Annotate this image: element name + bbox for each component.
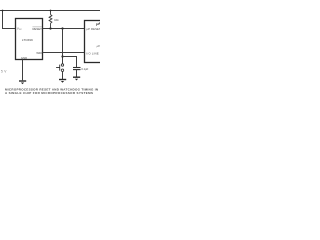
svg-text:VCC: VCC (17, 27, 22, 32)
svg-text:GND: GND (21, 56, 27, 60)
svg-text:LTC699: LTC699 (22, 38, 33, 42)
wire RESET net (43, 28, 85, 30)
svg-text:I/O LINE: I/O LINE (86, 52, 99, 56)
wire WDI net (43, 52, 85, 54)
node resistor/RESET junction (49, 27, 51, 29)
svg-text:μP: μP (95, 22, 100, 26)
svg-text:0.1µF: 0.1µF (81, 67, 88, 71)
5V supply rail (0, 10, 100, 12)
svg-text:μP RESET: μP RESET (86, 27, 100, 31)
node rail/VCC junction (2, 10, 4, 12)
wire pushbutton to ground (62, 71, 64, 79)
svg-text:10k: 10k (54, 18, 59, 22)
node pushbutton/RESET junction (61, 27, 63, 29)
wire VCC drop from rail to LTC699 VCC pin (3, 11, 16, 29)
svg-text:WDI: WDI (36, 51, 42, 55)
svg-text:μP: μP (96, 44, 100, 48)
wire capacitor to ground (76, 70, 78, 77)
node cap-stub junction (61, 55, 63, 57)
pushbutton S1 (56, 64, 64, 72)
wire pushbutton drop (62, 29, 64, 64)
resistor R1 10k (49, 11, 52, 29)
svg-text:A SINGLE CHIP FOR MICROPROCESS: A SINGLE CHIP FOR MICROPROCESSOR SYSTEMS (5, 91, 93, 95)
wire stub to capacitor (63, 57, 77, 68)
ground (pushbutton) (59, 80, 66, 83)
capacitor C1 0.1uF (73, 68, 81, 70)
node rail/resistor junction (50, 10, 52, 12)
svg-text:RESET: RESET (32, 27, 42, 31)
op-amp U1 LTC699 box (16, 19, 43, 60)
svg-text:5V: 5V (1, 69, 8, 73)
ground (GND pin) (19, 81, 26, 84)
ground (capacitor) (73, 77, 80, 80)
microprocessor U2 box (85, 21, 103, 63)
wire GND pin to ground (22, 60, 24, 81)
